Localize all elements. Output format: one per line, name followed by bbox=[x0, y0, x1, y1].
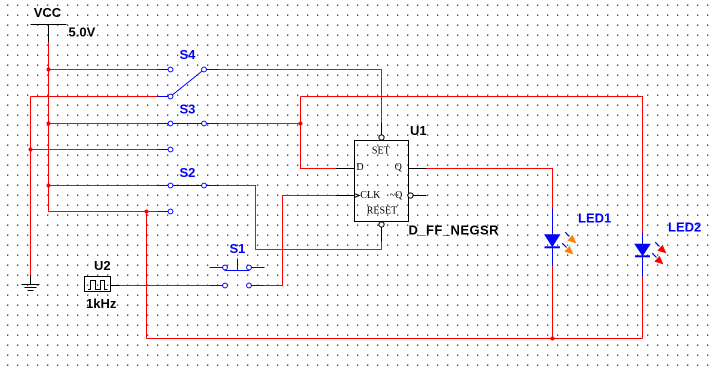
wire S2 pole to U1 RESET bbox=[219, 186, 382, 250]
svg-text:S1: S1 bbox=[230, 241, 246, 256]
LED2 bbox=[634, 233, 666, 277]
switch S3 bbox=[158, 121, 219, 152]
svg-text:S3: S3 bbox=[180, 102, 196, 117]
wire node D vertical and to D pin bbox=[301, 97, 337, 169]
pin SET stub bbox=[381, 123, 383, 135]
wire ground to S3 bottom throw bbox=[31, 149, 158, 151]
svg-text:RESET: RESET bbox=[367, 206, 398, 217]
svg-text:U1: U1 bbox=[410, 123, 427, 138]
switch S1 push button bbox=[210, 259, 265, 288]
wire U2 output to S1 bbox=[120, 285, 211, 287]
switch S2 bbox=[158, 183, 219, 214]
svg-text:CLK: CLK bbox=[360, 190, 381, 201]
junction at node D / S3 pole bbox=[299, 122, 303, 126]
LED2 light arrow 2 bbox=[652, 253, 656, 257]
svg-text:S2: S2 bbox=[180, 165, 196, 180]
pin RESET bubble bbox=[379, 222, 384, 227]
wire S2 bottom throw down to bottom bus bbox=[146, 212, 148, 339]
wire VCC rail to S2 bottom throw bbox=[49, 211, 158, 213]
svg-text:1kHz: 1kHz bbox=[86, 296, 117, 311]
svg-text:LED1: LED1 bbox=[578, 211, 611, 226]
LED1 bbox=[544, 209, 576, 267]
wire VCC to S4 top throw bbox=[49, 69, 158, 71]
wire S1 to U1 CLK bbox=[264, 196, 337, 286]
pin SET bubble bbox=[379, 135, 384, 140]
junction at VCC/S4 bbox=[47, 68, 51, 72]
junction at VCC/S3 bbox=[47, 122, 51, 126]
wire S4 pole to U1 SET bbox=[219, 70, 382, 124]
junction at VCC/S2 bbox=[47, 184, 51, 188]
LED1 light arrow 2 bbox=[562, 243, 566, 247]
junction LED1 / bottom bus bbox=[551, 337, 555, 341]
clock source U2 bbox=[85, 277, 120, 292]
wire VCC to S2 top throw bbox=[49, 185, 158, 187]
junction at ground/S3 bottom bbox=[29, 148, 33, 152]
svg-text:SET: SET bbox=[372, 146, 390, 157]
svg-text:Q: Q bbox=[395, 162, 403, 173]
svg-text:U2: U2 bbox=[94, 258, 111, 273]
wire ground to S4 bottom throw bbox=[31, 96, 158, 98]
svg-text:LED2: LED2 bbox=[668, 220, 701, 235]
wire LED1 bottom to bus bbox=[552, 266, 554, 339]
wire U1 Q to LED1 top bbox=[427, 169, 553, 209]
wire VCC rail vertical bbox=[48, 42, 50, 212]
pin ~Q stub bbox=[413, 195, 426, 197]
wire S3 pole to node D bbox=[219, 123, 301, 125]
svg-text:VCC: VCC bbox=[34, 5, 62, 20]
wire bottom bus bbox=[147, 338, 643, 340]
wire LED2 bottom to bus bbox=[642, 277, 644, 339]
svg-text:D: D bbox=[356, 162, 363, 173]
pin CLK stub bbox=[336, 195, 355, 197]
pin RESET stub bbox=[381, 227, 383, 241]
wire ground rail vertical bbox=[30, 97, 32, 276]
pin D stub bbox=[336, 168, 355, 170]
LED2 light arrow 1 bbox=[655, 242, 659, 246]
pin Q stub bbox=[409, 168, 427, 170]
wire node D to LED2 top bbox=[301, 97, 643, 233]
wire VCC to S3 top throw bbox=[49, 123, 158, 125]
svg-text:~Q: ~Q bbox=[390, 190, 403, 201]
svg-text:S4: S4 bbox=[180, 47, 197, 62]
junction at S2 bottom throw / bus drop bbox=[145, 210, 149, 214]
svg-text:5.0V: 5.0V bbox=[69, 25, 96, 40]
LED1 light arrow 1 bbox=[565, 232, 569, 236]
switch S4 bbox=[158, 67, 219, 99]
flip-flop U1 bbox=[336, 123, 427, 242]
power VCC symbol bbox=[31, 25, 67, 43]
pin CLK edge wedge bbox=[355, 194, 360, 198]
svg-text:D_FF_NEGSR: D_FF_NEGSR bbox=[409, 223, 500, 238]
pin ~Q bubble bbox=[408, 193, 413, 198]
ground bbox=[22, 275, 40, 291]
